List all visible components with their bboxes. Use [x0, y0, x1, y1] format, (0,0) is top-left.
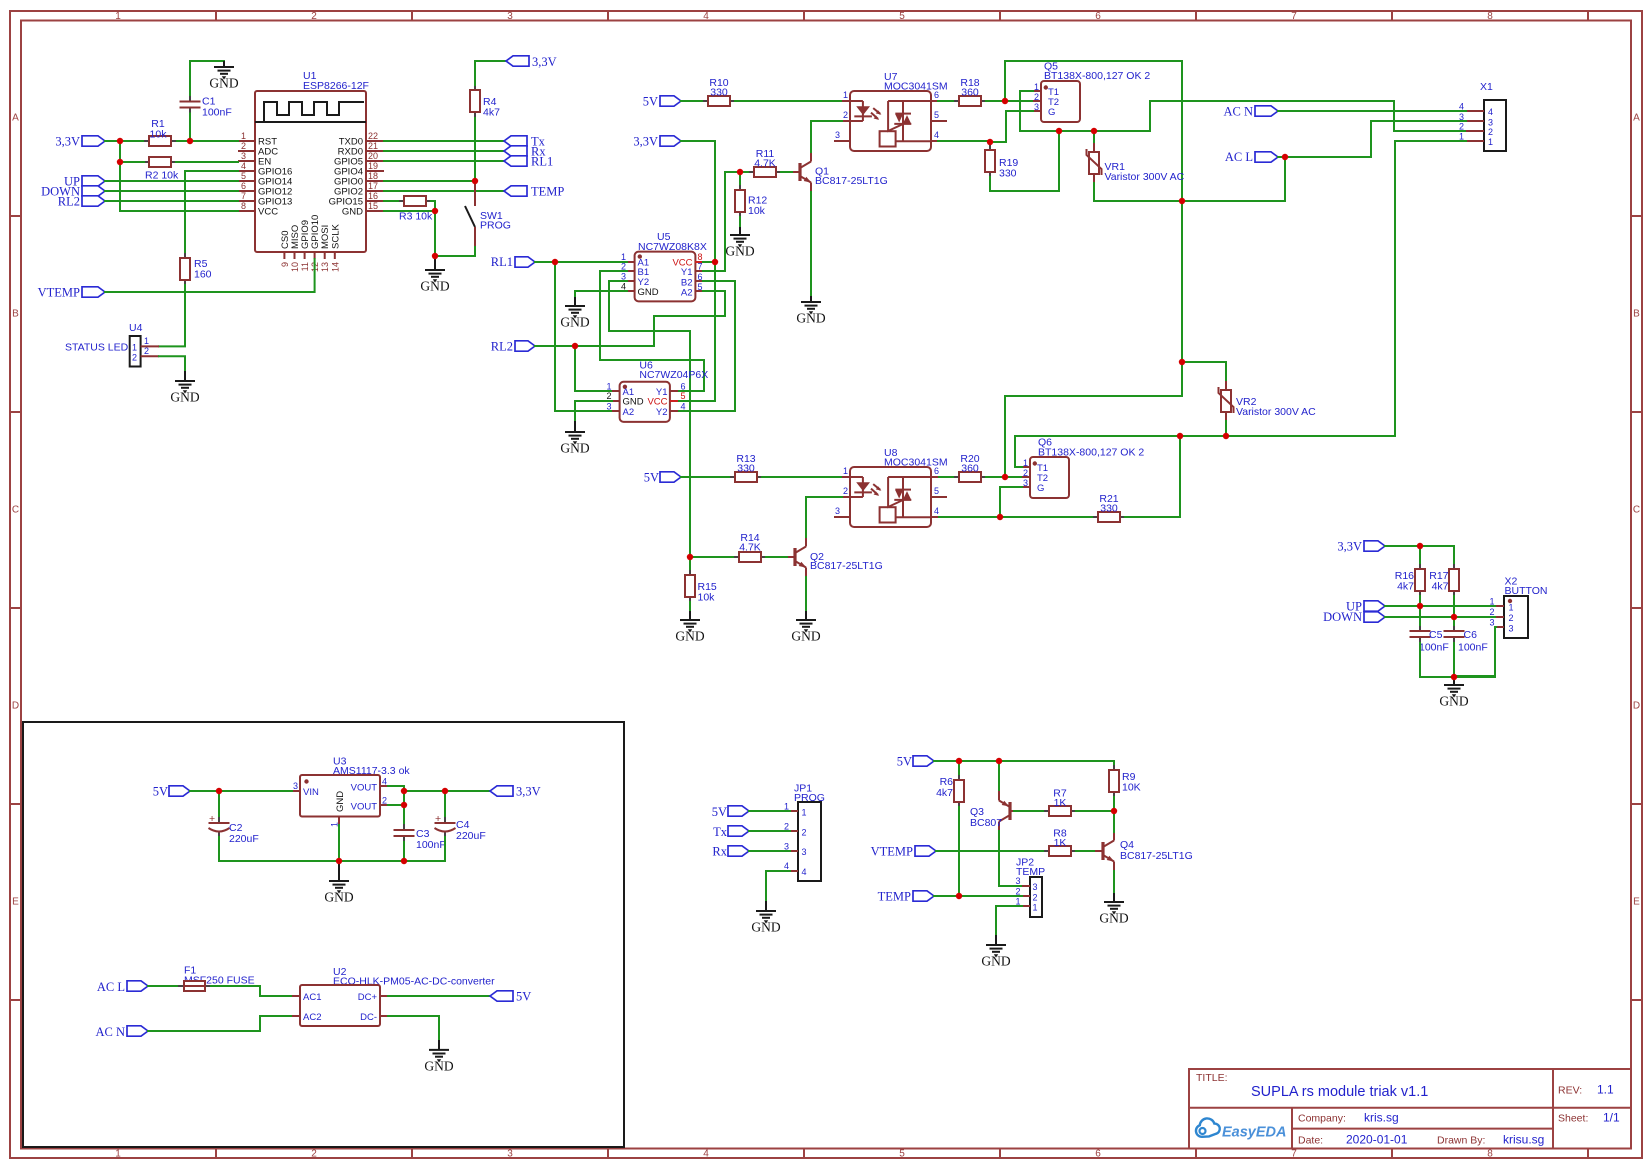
svg-text:B: B: [12, 309, 19, 320]
svg-text:5: 5: [698, 282, 703, 292]
svg-text:TEMP: TEMP: [531, 185, 564, 199]
node AC L junction: [1282, 154, 1288, 160]
ground under Q1: [796, 296, 825, 326]
wire RL2 to U5.A2: [654, 291, 725, 346]
resistor R12 10k: [735, 185, 767, 217]
svg-text:7: 7: [1291, 1149, 1297, 1160]
wire AC L to X1 pin3: [1278, 121, 1466, 157]
svg-text:4.7K: 4.7K: [739, 542, 761, 554]
svg-text:3: 3: [802, 847, 807, 857]
svg-text:6: 6: [241, 181, 246, 191]
svg-text:20: 20: [368, 151, 378, 161]
wire JP1.4 to ground: [766, 871, 790, 901]
node T2 junction: [1002, 98, 1008, 104]
svg-text:100nF: 100nF: [1419, 642, 1449, 654]
svg-text:160: 160: [194, 269, 212, 281]
svg-text:15: 15: [368, 201, 378, 211]
wire R18 to Q5.T2: [986, 100, 1033, 102]
svg-text:8: 8: [698, 252, 703, 262]
wire Q4 collector: [1113, 811, 1115, 832]
wire RL1 to U6.A2: [555, 262, 612, 411]
node GND rail junction: [336, 858, 342, 864]
svg-text:2: 2: [382, 795, 387, 805]
node VR1/T1 junction: [1091, 128, 1097, 134]
svg-text:1: 1: [1033, 903, 1038, 913]
svg-text:1: 1: [144, 336, 149, 346]
svg-text:3: 3: [1488, 117, 1493, 127]
svg-text:+: +: [435, 813, 441, 825]
net flag 5V (JP1): [712, 805, 749, 819]
resistor R7 1K: [1044, 788, 1076, 817]
svg-text:VIN: VIN: [303, 787, 319, 798]
svg-text:330: 330: [737, 463, 755, 475]
node RL1 junction: [552, 259, 558, 265]
node R7/R9/Q4 junction: [1111, 808, 1117, 814]
svg-text:3,3V: 3,3V: [633, 135, 658, 149]
wire RL2 to U6.A1: [575, 346, 612, 391]
svg-text:4: 4: [241, 161, 246, 171]
capacitor C5 100nF: [1410, 625, 1449, 654]
svg-text:E: E: [12, 897, 19, 908]
svg-text:4: 4: [1488, 107, 1493, 117]
wire U5.VCC to 3,3V rail: [703, 261, 715, 263]
net flag RL1 (top): [504, 155, 553, 169]
wire R3 right down: [431, 201, 435, 256]
svg-text:GND: GND: [623, 397, 644, 408]
wire R17 to DOWN row: [1453, 596, 1455, 617]
ground under U4: [170, 371, 199, 405]
svg-text:5V: 5V: [897, 754, 912, 768]
net flag 5V (temp circuit): [897, 754, 934, 768]
wire R7 to node: [1076, 810, 1114, 812]
wire R20 to Q6.T2: [986, 476, 1022, 478]
resistor R14 4.7K: [734, 532, 766, 562]
svg-text:2020-01-01: 2020-01-01: [1346, 1133, 1408, 1147]
wire U4 pin2 to ground: [159, 356, 185, 371]
ground under U3: [324, 861, 353, 905]
svg-text:GND: GND: [638, 287, 659, 298]
net flag 3,3V (buttons): [1337, 540, 1385, 554]
svg-text:18: 18: [368, 171, 378, 181]
svg-text:VTEMP: VTEMP: [871, 845, 913, 859]
svg-text:C5: C5: [1429, 629, 1443, 641]
svg-text:3: 3: [507, 1149, 513, 1160]
net flag UP (button): [1346, 599, 1385, 613]
connector X1: [1459, 81, 1506, 151]
svg-text:3,3V: 3,3V: [1337, 540, 1362, 554]
wire R16 to UP row: [1419, 596, 1421, 606]
svg-text:PROG: PROG: [480, 220, 511, 232]
wire Q1 emitter to ground: [810, 192, 812, 296]
svg-text:1: 1: [606, 381, 611, 391]
resistor R2 10k: [144, 157, 179, 182]
wire GPIO2 to TEMP: [384, 190, 504, 192]
svg-text:360: 360: [961, 87, 979, 99]
net flag 3,3V (regulator out): [490, 784, 541, 798]
resistor R19 330: [985, 142, 1018, 180]
svg-text:5V: 5V: [643, 95, 658, 109]
svg-text:4k7: 4k7: [483, 107, 500, 119]
net flag VTEMP: [38, 286, 105, 300]
wire U8 pin2 to Q2 collector: [806, 497, 842, 538]
svg-text:kris.sg: kris.sg: [1364, 1111, 1399, 1125]
wire U7 pin6 to R18: [938, 100, 954, 102]
wire JP2.1 to ground: [996, 906, 1022, 935]
wire 5V to JP1.1: [749, 810, 790, 812]
svg-text:krisu.sg: krisu.sg: [1503, 1133, 1544, 1147]
wire R9 to node: [1113, 797, 1115, 811]
wire C6 top: [1453, 617, 1455, 625]
transistor Q2 BC817-25LT1G: [787, 538, 883, 577]
node R21 rail junction: [1177, 433, 1183, 439]
wire U5.Y2 to R14 node: [609, 281, 690, 557]
svg-text:4k7: 4k7: [936, 787, 953, 799]
svg-text:16: 16: [368, 191, 378, 201]
svg-text:3: 3: [293, 781, 298, 791]
svg-text:7: 7: [1291, 11, 1297, 22]
svg-text:GND: GND: [335, 791, 346, 812]
wire R13 to U8 pin1: [762, 476, 842, 478]
wire 5V rail temp: [934, 761, 1114, 791]
net flag Rx: [504, 145, 546, 159]
wire Y1 node to R11: [725, 171, 749, 173]
wire AC N to X1 pin4: [1278, 110, 1466, 112]
node SW1/ground junction: [432, 253, 438, 259]
wire C5 top: [1419, 606, 1421, 625]
net flag RL1 (driver): [491, 255, 535, 269]
capacitor C1 100nF: [180, 96, 232, 119]
svg-text:5: 5: [899, 11, 905, 22]
wire Q3 base to R7: [1014, 810, 1044, 812]
node R19/T1 junction: [1056, 128, 1062, 134]
svg-text:17: 17: [368, 181, 378, 191]
wire X1 pin1 to T1 rail: [1015, 141, 1466, 467]
svg-text:E: E: [1633, 897, 1640, 908]
svg-text:1K: 1K: [1054, 837, 1067, 849]
node U5 VCC junction: [712, 259, 718, 265]
svg-text:RL1: RL1: [491, 255, 513, 269]
wire 3,3V rail down to VCC: [120, 141, 238, 211]
wire GPIO5 to RL1: [384, 160, 504, 162]
wire VR1 to rail: [1093, 183, 1095, 201]
node Q3 emitter junction: [996, 758, 1002, 764]
svg-text:C6: C6: [1464, 629, 1478, 641]
node R6 junction: [956, 758, 962, 764]
gate U5 NC7WZ08K8X: [621, 231, 707, 301]
svg-text:4: 4: [382, 776, 387, 786]
wire UP to X2 pin1: [1385, 605, 1496, 607]
svg-text:Company:: Company:: [1298, 1113, 1346, 1125]
wire 5V to VIN: [190, 790, 292, 792]
svg-text:19: 19: [368, 161, 378, 171]
svg-text:AC N: AC N: [1223, 105, 1253, 119]
svg-text:AC L: AC L: [1225, 150, 1253, 164]
svg-text:TEMP: TEMP: [878, 890, 911, 904]
svg-text:Drawn By:: Drawn By:: [1437, 1135, 1485, 1147]
svg-text:A: A: [1633, 113, 1640, 124]
wire VR2 branch: [1182, 362, 1226, 382]
node 3,3V/R16 junction: [1417, 543, 1423, 549]
svg-text:BC817-25LT1G: BC817-25LT1G: [1120, 850, 1193, 862]
node RL2 junction: [572, 343, 578, 349]
net flag 3,3V (top): [506, 55, 557, 69]
node C4 junction: [442, 788, 448, 794]
wire 3,3V rail to U6.VCC: [678, 141, 715, 401]
svg-text:4: 4: [703, 1149, 709, 1160]
svg-text:+: +: [209, 813, 215, 825]
resistor R13 330: [730, 453, 762, 482]
svg-text:4k7: 4k7: [1432, 581, 1449, 593]
resistor R17 4k7: [1429, 564, 1459, 596]
resistor R1 10k: [144, 118, 176, 146]
optocoupler U7 MOC3041SM: [834, 71, 948, 151]
svg-text:3: 3: [241, 151, 246, 161]
ground under U5: [560, 297, 589, 330]
svg-text:5: 5: [899, 1149, 905, 1160]
svg-text:10k: 10k: [150, 129, 168, 141]
wire R5 to U4 pin1: [159, 285, 185, 346]
wire DOWN to GPIO12: [105, 190, 238, 192]
svg-text:AC N: AC N: [95, 1025, 125, 1039]
svg-text:330: 330: [999, 168, 1017, 180]
svg-text:10K: 10K: [1122, 782, 1141, 794]
converter U2 ECO-HLK-PM05: [292, 966, 495, 1026]
svg-text:3,3V: 3,3V: [516, 784, 541, 798]
wire R4 bottom: [474, 117, 476, 181]
net flag DOWN: [41, 185, 105, 199]
node G/R19 junction: [987, 139, 993, 145]
wire R4 top to 3,3V: [475, 61, 506, 85]
resistor R11 4.7K: [749, 148, 781, 177]
svg-text:1: 1: [115, 11, 121, 22]
svg-text:DC-: DC-: [360, 1012, 377, 1023]
wire R10 to U7 pin1: [735, 100, 842, 102]
svg-text:100nF: 100nF: [202, 107, 232, 119]
wire Tx to JP1.2: [749, 830, 790, 832]
svg-text:8: 8: [1487, 1149, 1493, 1160]
svg-text:RL2: RL2: [58, 195, 80, 209]
svg-text:5: 5: [241, 171, 246, 181]
svg-text:100nF: 100nF: [1458, 642, 1488, 654]
svg-text:C: C: [1633, 505, 1640, 516]
transistor Q1 BC817-25LT1G: [792, 153, 888, 192]
wire node to R14: [690, 556, 734, 558]
wire C2 to ground rail: [219, 837, 445, 861]
wire AC L to fuse: [148, 985, 178, 987]
wire VTEMP to GPIO10: [105, 259, 315, 292]
wire U5 GND pin: [575, 291, 627, 297]
svg-text:2: 2: [1488, 127, 1493, 137]
svg-text:4: 4: [703, 11, 709, 22]
wire TEMP to JP2.2: [934, 895, 1022, 897]
svg-text:D: D: [12, 701, 19, 712]
svg-text:10k: 10k: [748, 205, 766, 217]
svg-text:7: 7: [241, 191, 246, 201]
node UP junction: [1417, 603, 1423, 609]
wire DC+ to 5V: [388, 995, 490, 997]
svg-text:5V: 5V: [712, 805, 727, 819]
wire GPIO0 to R4/SW1: [384, 180, 475, 182]
svg-text:Date:: Date:: [1298, 1135, 1323, 1147]
net flag AC N (mains in): [95, 1025, 148, 1039]
ground under U2: [424, 1040, 453, 1073]
svg-text:A: A: [12, 113, 19, 124]
svg-text:Varistor 300V AC: Varistor 300V AC: [1105, 171, 1185, 183]
wire U5.B1 to U6.Y1: [600, 271, 704, 391]
net flag TEMP (sense): [878, 890, 934, 904]
net flag 5V (U7): [643, 95, 681, 109]
svg-text:VCC: VCC: [258, 207, 278, 218]
net flag AC N (right): [1223, 105, 1278, 119]
node VOUT junction: [401, 788, 407, 794]
net flag DOWN (button): [1323, 610, 1385, 624]
wire U6 GND pin: [575, 401, 612, 421]
svg-text:X1: X1: [1480, 81, 1493, 93]
net flag RL2 (left): [58, 195, 105, 209]
wire SW1 to ground rail: [435, 247, 475, 256]
wire TXD0 to Tx: [384, 140, 504, 142]
node R11/R12 junction: [737, 169, 743, 175]
wire Q6.G down: [1000, 487, 1022, 517]
wire VR1 bottom rail: [1094, 157, 1285, 201]
capacitor C2 220uF: [209, 791, 259, 845]
net flag 5V (regulator in): [153, 784, 190, 798]
svg-text:5: 5: [681, 391, 686, 401]
resistor R15 10k: [685, 557, 717, 604]
svg-text:1.1: 1.1: [1597, 1083, 1614, 1097]
node R3/GND15 junction: [432, 208, 438, 214]
svg-text:4k7: 4k7: [1397, 581, 1414, 593]
svg-text:10k: 10k: [698, 592, 716, 604]
svg-text:1: 1: [115, 1149, 121, 1160]
wire AC N to AC2: [148, 1016, 292, 1031]
svg-text:6: 6: [1095, 1149, 1101, 1160]
net flag 3,3V (left): [55, 135, 105, 149]
svg-text:NC7WZ04P6X: NC7WZ04P6X: [639, 369, 708, 381]
node C2 junction: [216, 788, 222, 794]
wire R15 to ground: [689, 602, 691, 611]
wire 5V to R10: [681, 100, 703, 102]
svg-text:1: 1: [1489, 596, 1494, 606]
wire DOWN to X2 pin2: [1385, 616, 1496, 618]
svg-text:VTEMP: VTEMP: [38, 286, 80, 300]
wire X2 pin3 to ground rail: [1454, 627, 1496, 676]
wire U5.B2 to U6.Y2: [678, 281, 735, 411]
wire Q3 collector to JP2.3: [999, 831, 1022, 886]
wire C3 to ground rail: [403, 842, 405, 861]
svg-text:2: 2: [241, 141, 246, 151]
wire R12 to ground: [739, 217, 741, 227]
wire R2 to EN: [120, 161, 144, 163]
svg-text:3: 3: [784, 841, 789, 851]
node RST/C1 junction: [187, 138, 193, 144]
ground under Q4: [1099, 893, 1128, 926]
fuse F1 MSF250: [178, 965, 255, 992]
svg-text:4.7K: 4.7K: [754, 158, 776, 170]
svg-text:3,3V: 3,3V: [55, 135, 80, 149]
capacitor C3 100nF: [394, 824, 446, 851]
wire VR2 to T1 rail: [1225, 421, 1227, 436]
wire U5.Y1 up to R11: [703, 172, 725, 271]
wire 3,3V to RST: [105, 140, 144, 142]
svg-text:STATUS LED: STATUS LED: [65, 342, 129, 354]
node C3/rail junction: [401, 858, 407, 864]
svg-text:1: 1: [1459, 131, 1464, 141]
svg-text:RL1: RL1: [531, 155, 553, 169]
wire C1 bottom: [189, 114, 191, 142]
wire button ground rail: [1420, 643, 1495, 677]
resistor R18 360: [954, 77, 986, 106]
wire C1 top to GND: [190, 61, 224, 95]
svg-text:330: 330: [710, 87, 728, 99]
wire VOUT4 to 3,3V: [388, 786, 490, 791]
ground under R12: [725, 227, 754, 259]
wire U7 pin2 to Q1 collector: [811, 121, 842, 153]
svg-text:1: 1: [241, 131, 246, 141]
svg-text:Tx: Tx: [713, 825, 728, 839]
svg-text:B: B: [1633, 309, 1640, 320]
wire U8 pin4 to R21: [939, 516, 1093, 518]
node R2 junction: [117, 159, 123, 165]
svg-text:2: 2: [1459, 121, 1464, 131]
svg-text:1: 1: [1509, 603, 1514, 613]
svg-text:RL2: RL2: [491, 340, 513, 354]
ground under X2: [1439, 677, 1468, 709]
wire 5V to R13: [681, 476, 730, 478]
svg-text:1: 1: [621, 252, 626, 262]
svg-text:AC L: AC L: [97, 980, 125, 994]
triac Q6 BT138X-800: [1022, 437, 1144, 499]
svg-text:3: 3: [1509, 624, 1514, 634]
header JP2 TEMP: [1015, 857, 1045, 918]
svg-text:AC2: AC2: [303, 1012, 321, 1023]
net flag Tx (JP1): [713, 825, 749, 839]
wire 3,3V to R16/R17: [1385, 546, 1454, 564]
svg-text:R2 10k: R2 10k: [145, 170, 179, 182]
svg-text:DC+: DC+: [358, 992, 378, 1003]
svg-text:R3 10k: R3 10k: [399, 211, 433, 223]
svg-text:2: 2: [1509, 613, 1514, 623]
svg-text:2: 2: [606, 391, 611, 401]
svg-text:Rx: Rx: [712, 845, 727, 859]
node R14/R15 junction: [687, 554, 693, 560]
svg-text:DOWN: DOWN: [1323, 610, 1362, 624]
net flag 3,3V (gates): [633, 135, 681, 149]
svg-text:2: 2: [311, 11, 317, 22]
resistor R16 4k7: [1395, 564, 1425, 596]
net flag TEMP: [504, 185, 564, 199]
wire U8 pin6 to R20: [939, 476, 954, 478]
svg-text:2: 2: [311, 1149, 317, 1160]
node VR2/rail junction: [1223, 433, 1229, 439]
wire node to R12: [739, 172, 741, 185]
svg-text:9: 9: [280, 262, 290, 267]
svg-text:22: 22: [368, 131, 378, 141]
ground under Q2: [791, 611, 820, 644]
node ground rail junction: [1451, 674, 1457, 680]
resistor R10 330: [703, 77, 735, 106]
svg-text:AC1: AC1: [303, 992, 321, 1003]
svg-text:C: C: [12, 505, 19, 516]
ground under R15: [675, 611, 704, 644]
transistor Q3 BC807: [970, 791, 1014, 831]
svg-text:7: 7: [698, 262, 703, 272]
svg-text:EasyEDA: EasyEDA: [1222, 1125, 1286, 1141]
wire VTEMP to R8: [936, 850, 1044, 852]
net flag 5V (U8): [644, 470, 681, 484]
wire Q4 emitter to ground: [1113, 871, 1115, 893]
gate U6 NC7WZ04P6X: [606, 360, 708, 422]
